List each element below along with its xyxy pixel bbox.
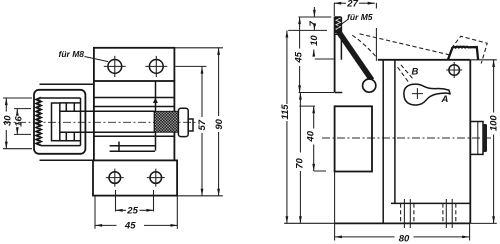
svg-text:A: A xyxy=(441,94,449,105)
svg-text:40: 40 xyxy=(306,130,317,142)
svg-text:70: 70 xyxy=(294,158,305,169)
svg-text:57: 57 xyxy=(197,119,208,130)
svg-text:115: 115 xyxy=(280,104,291,120)
svg-text:30: 30 xyxy=(3,115,14,126)
svg-text:7: 7 xyxy=(308,20,319,26)
svg-text:100: 100 xyxy=(488,115,499,132)
svg-text:45: 45 xyxy=(294,51,305,63)
svg-text:für M8: für M8 xyxy=(59,49,85,59)
svg-text:16: 16 xyxy=(14,116,25,127)
svg-text:27: 27 xyxy=(346,0,358,9)
svg-text:10: 10 xyxy=(309,35,320,46)
svg-text:25: 25 xyxy=(126,205,138,216)
svg-text:45: 45 xyxy=(124,221,136,232)
svg-text:90: 90 xyxy=(214,118,225,129)
svg-text:80: 80 xyxy=(399,233,410,244)
svg-text:B: B xyxy=(412,67,419,78)
svg-text:für M5: für M5 xyxy=(347,12,373,22)
